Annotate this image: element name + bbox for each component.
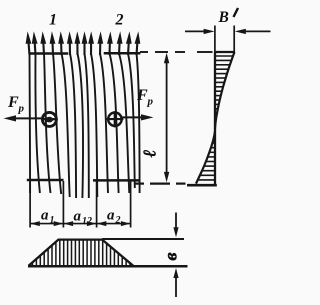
force Fp arrow right	[122, 114, 154, 120]
stress profile lower curve	[196, 131, 215, 184]
svg-text:p: p	[18, 103, 25, 115]
profile bottom closing line	[187, 184, 217, 187]
baseline under trapezoid	[28, 265, 188, 268]
svg-text:В: В	[218, 9, 229, 26]
hatching trapezoid	[33, 240, 131, 265]
stress flow arrows at top	[26, 31, 141, 55]
svg-text:1: 1	[50, 215, 55, 226]
svg-text:a: a	[107, 208, 115, 224]
dashed line top	[140, 51, 213, 53]
bottom edge of plate 2	[93, 179, 140, 182]
svg-text:ℓ: ℓ	[140, 149, 160, 157]
svg-text:F: F	[7, 94, 19, 111]
svg-text:1: 1	[49, 12, 57, 29]
svg-text:в: в	[161, 252, 181, 260]
top edge of plate 2	[104, 52, 141, 55]
label B'	[218, 8, 239, 26]
trapezoid stress diagram outline	[29, 240, 134, 266]
dimension l line with arrows	[164, 53, 169, 183]
label Fp right	[136, 87, 154, 108]
svg-text:12: 12	[82, 216, 92, 227]
stress profile baseline	[214, 52, 216, 184]
bottom edge of plate 1	[27, 179, 64, 182]
dimension arrows for width в	[173, 213, 178, 298]
top reference line of trapezoid height	[102, 238, 184, 240]
stress profile top edge	[214, 51, 235, 53]
hatching upper profile	[215, 56, 233, 113]
dashed line bottom	[134, 183, 186, 185]
weld point 2 (circle with cross)	[107, 111, 124, 127]
top edge of plate 1	[29, 52, 68, 55]
label a12	[74, 209, 93, 228]
extension lines for a dimensions	[30, 181, 131, 228]
weld point 1 (circle, filled cross)	[42, 112, 56, 126]
label a1	[41, 208, 55, 227]
stress profile upper curve	[215, 52, 235, 129]
dimension B' arrows	[185, 26, 271, 53]
svg-text:a: a	[41, 208, 49, 224]
svg-text:2: 2	[115, 215, 121, 226]
svg-text:a: a	[74, 209, 82, 225]
svg-text:F: F	[136, 87, 148, 104]
label Fp left	[7, 94, 25, 115]
hatching lower profile	[198, 143, 215, 180]
svg-text:p: p	[147, 96, 154, 108]
force Fp arrow left	[4, 115, 43, 121]
dimension arrow line a1 a12 a2	[30, 221, 131, 226]
stress flow lines inside plates	[30, 54, 140, 199]
svg-text:2: 2	[115, 12, 124, 29]
label a2	[107, 208, 121, 227]
